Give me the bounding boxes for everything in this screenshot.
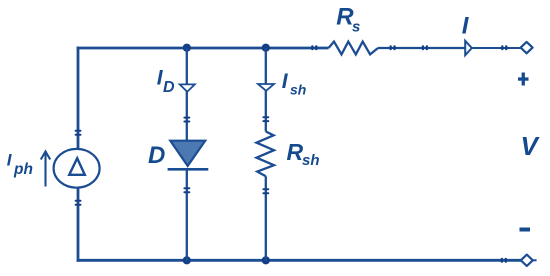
diode D triangle	[170, 141, 205, 166]
current source triangle	[69, 158, 85, 175]
resistor R_sh zigzag	[257, 132, 275, 177]
svg-text:s: s	[352, 19, 360, 36]
diode branch lower wire	[186, 169, 188, 261]
svg-text:V: V	[521, 131, 541, 161]
label - terminal	[520, 228, 531, 232]
label I_ph	[7, 151, 33, 178]
tick on top wire right of Rs	[390, 45, 396, 50]
wire bottom horizontal	[77, 259, 521, 262]
tick below current source	[75, 200, 82, 206]
wire between resistor and current arrow	[378, 47, 465, 49]
svg-text:I: I	[7, 151, 13, 170]
terminal bottom (open diamond)	[521, 255, 537, 266]
label I_sh	[282, 70, 307, 97]
Rsh branch lower wire	[265, 176, 267, 261]
node junction top diode	[183, 44, 191, 52]
svg-text:I: I	[282, 70, 289, 93]
label R_s	[336, 4, 360, 36]
wire arrow to top terminal	[472, 47, 521, 49]
resistor R_s zigzag	[329, 42, 379, 55]
tick above diode	[183, 117, 190, 123]
wire left vertical	[77, 47, 80, 150]
node junction bottom diode	[183, 256, 191, 264]
node junction bottom Rsh	[262, 256, 270, 264]
diode branch upper wire	[186, 48, 188, 141]
Rsh branch upper wire	[265, 48, 267, 132]
tick on top wire mid right	[422, 45, 428, 50]
tick on top wire left of Rs	[311, 45, 317, 50]
label + terminal	[518, 73, 529, 86]
terminal top (open diamond)	[521, 42, 533, 53]
tick above Rsh	[262, 116, 269, 122]
tick before bottom terminal	[501, 258, 507, 263]
label R_sh	[287, 139, 320, 169]
tick above current source	[75, 130, 82, 136]
current source I_ph circle	[54, 149, 100, 188]
svg-text:ph: ph	[13, 161, 33, 178]
node junction top Rsh	[262, 44, 270, 52]
svg-text:I: I	[462, 13, 470, 40]
I_ph direction arrow	[41, 152, 50, 187]
svg-text:R: R	[287, 139, 304, 165]
svg-text:D: D	[148, 142, 165, 169]
I_D current arrowhead	[180, 84, 195, 91]
diode cathode bar	[168, 168, 209, 171]
tick below diode	[183, 187, 190, 193]
tick before top terminal	[501, 45, 507, 50]
tick below Rsh	[262, 188, 269, 194]
svg-text:sh: sh	[290, 81, 306, 97]
I_sh current arrowhead	[258, 84, 274, 91]
wire below current source	[77, 188, 80, 262]
svg-text:D: D	[163, 79, 175, 96]
current arrow I (open triangle)	[465, 41, 472, 55]
wire top-left horizontal	[77, 47, 329, 50]
svg-text:sh: sh	[302, 152, 320, 169]
label I_D	[157, 66, 175, 96]
